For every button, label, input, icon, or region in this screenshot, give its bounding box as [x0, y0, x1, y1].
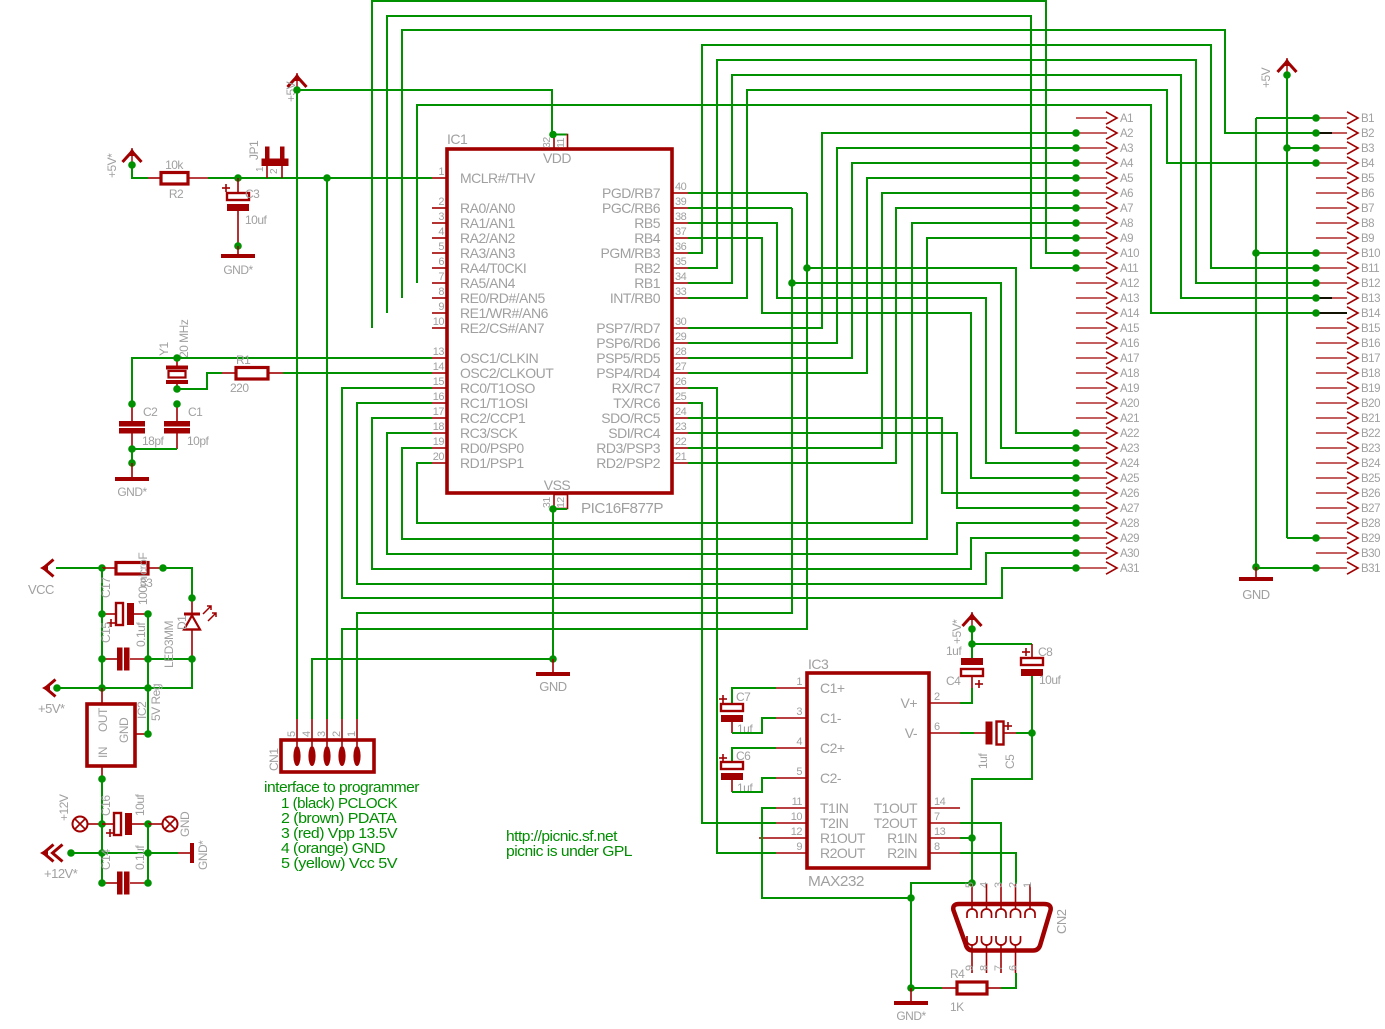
wire net pin27 PSP4 to A5 — [688, 178, 1076, 373]
svg-text:picnic is under GPL: picnic is under GPL — [506, 843, 632, 860]
pin A18 (connector A) — [1076, 367, 1139, 380]
junction A6 — [1072, 189, 1080, 197]
pin 16 RC1/T1OSI (IC1 left) — [432, 391, 528, 411]
svg-text:SDI/RC4: SDI/RC4 — [608, 425, 660, 441]
power symbol +12V* — [40, 845, 78, 882]
pin B29 (connector B) — [1316, 532, 1380, 545]
svg-text:R1: R1 — [236, 353, 251, 367]
pin 13 R1IN (IC3 right) — [887, 826, 960, 846]
svg-text:B21: B21 — [1361, 413, 1380, 425]
wire C7 bottom to C1- — [732, 718, 776, 733]
power symbol GND (crossed circle) — [148, 817, 178, 832]
junction D1 bottom — [188, 655, 196, 663]
wire D1 to +5V* rail — [57, 659, 192, 688]
junction C17 right — [144, 610, 152, 618]
svg-text:T1IN: T1IN — [820, 800, 848, 816]
svg-text:C1: C1 — [188, 405, 203, 419]
pin A3 (connector A) — [1076, 142, 1133, 155]
junction B4 — [1312, 159, 1320, 167]
svg-text:34: 34 — [675, 271, 687, 283]
pin A16 (connector A) — [1076, 337, 1139, 350]
wire C6 bottom to C2- — [732, 778, 776, 792]
svg-text:+5V*: +5V* — [105, 153, 119, 178]
svg-text:B16: B16 — [1361, 338, 1380, 350]
wire net pin23 SDI to A27 — [688, 433, 1076, 508]
svg-text:RD1/PSP1: RD1/PSP1 — [460, 455, 524, 471]
svg-text:27: 27 — [675, 361, 687, 373]
pin 5 RA3/AN3 (IC1 left) — [432, 241, 516, 261]
svg-text:10pf: 10pf — [187, 434, 210, 448]
svg-text:C8: C8 — [1038, 645, 1053, 659]
pin 3 C1- (IC3 left) — [776, 706, 842, 726]
svg-text:B14: B14 — [1361, 308, 1381, 320]
capacitor C16 (10uf polarized) — [102, 813, 148, 837]
svg-text:GND*: GND* — [196, 840, 210, 870]
pin 24 SDO/RC5 (IC1 right) — [601, 406, 688, 426]
wire R4 to CN2 pin6 — [1001, 973, 1016, 988]
svg-text:A22: A22 — [1120, 428, 1139, 440]
wire net pin22 RD3 to A6 — [688, 193, 1076, 448]
svg-text:B12: B12 — [1361, 278, 1380, 290]
junction B31 — [1312, 564, 1320, 572]
voltage regulator IC2 (5V Reg) — [87, 688, 148, 779]
svg-text:IC3: IC3 — [808, 656, 829, 672]
capacitor C3 (10uf polarized) — [222, 178, 249, 246]
pin 18 RC3/SCK (IC1 left) — [432, 421, 518, 441]
svg-text:VCC: VCC — [28, 582, 54, 597]
wire +5V* to R2 — [132, 164, 148, 178]
svg-text:5: 5 — [438, 241, 444, 253]
svg-text:1uf: 1uf — [946, 644, 962, 658]
svg-text:A8: A8 — [1120, 218, 1133, 230]
svg-text:20: 20 — [433, 451, 445, 463]
junction VSS — [549, 505, 557, 513]
svg-text:B6: B6 — [1361, 188, 1374, 200]
pin A10 (connector A) — [1076, 247, 1139, 260]
svg-text:A6: A6 — [1120, 188, 1133, 200]
svg-text:A15: A15 — [1120, 323, 1139, 335]
svg-text:GND: GND — [539, 679, 567, 694]
resistor R2 — [148, 173, 208, 185]
junction Y1 top — [173, 354, 181, 362]
wire net pin15 RC0 to A31 — [342, 388, 1076, 598]
junction C2 top — [128, 400, 136, 408]
wire C1/C2 ground link — [132, 449, 177, 463]
pin A21 (connector A) — [1076, 412, 1139, 425]
svg-text:18pf: 18pf — [142, 434, 165, 448]
wire net PGC branch to A23 — [792, 283, 1076, 448]
svg-text:PSP4/RD4: PSP4/RD4 — [596, 365, 660, 381]
svg-text:1: 1 — [438, 166, 444, 178]
svg-text:5 (yellow) Vcc 5V: 5 (yellow) Vcc 5V — [281, 855, 398, 872]
wire net pin18 RC3 to A28 — [387, 433, 1076, 554]
capacitor C1 (10pf) — [164, 404, 190, 449]
wire +5V down to CN1 pin 5 — [296, 90, 298, 719]
wire net pin26 RX to R2OUT — [688, 388, 776, 853]
pin 2 (CN2 top) — [1008, 882, 1021, 918]
junction +5V* C4 node — [968, 625, 976, 633]
junction Y1 bottom — [173, 385, 181, 393]
svg-text:5: 5 — [964, 882, 976, 888]
pin B10 (connector B) — [1316, 247, 1380, 260]
wire net pin17 RC2 to A29 — [372, 418, 1076, 569]
pin A29 (connector A) — [1076, 532, 1139, 545]
svg-text:R2IN: R2IN — [887, 845, 917, 861]
svg-text:SDO/RC5: SDO/RC5 — [601, 410, 660, 426]
svg-text:RD2/PSP2: RD2/PSP2 — [596, 455, 660, 471]
wire CN1 pin2 to PGD net — [342, 193, 807, 719]
wire net pin37 RB4 to A25 — [688, 238, 1076, 478]
wire R3 to LED branch — [163, 568, 192, 598]
ground GND* below C3 — [221, 246, 255, 277]
pin 1 MCLR#/THV (IC1 left) — [432, 166, 536, 186]
svg-text:RA0/AN0: RA0/AN0 — [460, 200, 516, 216]
power symbol +5V* (regulator output) — [38, 680, 65, 717]
pin A5 (connector A) — [1076, 172, 1133, 185]
pin 28 PSP5/RD5 (IC1 right) — [596, 346, 688, 366]
junction A24 — [1072, 459, 1080, 467]
svg-text:C6: C6 — [736, 749, 751, 763]
pin B18 (connector B) — [1316, 367, 1380, 380]
wire IC2 IN rail down — [101, 779, 103, 883]
pin A15 (connector A) — [1076, 322, 1139, 335]
wire C17/C15 right rail — [147, 614, 149, 734]
svg-text:PGM/RB3: PGM/RB3 — [600, 245, 660, 261]
svg-text:21: 21 — [675, 451, 687, 463]
svg-text:12: 12 — [555, 497, 567, 508]
svg-text:8: 8 — [438, 286, 444, 298]
svg-text:220: 220 — [230, 381, 249, 395]
jumper JP1 — [262, 147, 289, 179]
pin B17 (connector B) — [1316, 352, 1380, 365]
junction A9 — [1072, 234, 1080, 242]
svg-text:A23: A23 — [1120, 443, 1139, 455]
svg-text:30: 30 — [675, 316, 687, 328]
svg-text:A7: A7 — [1120, 203, 1133, 215]
capacitor C7 (1uf polarized) — [719, 688, 776, 733]
junction R3 right — [159, 564, 167, 572]
svg-text:5V Reg: 5V Reg — [149, 684, 163, 721]
svg-text:RE0/RD#/AN5: RE0/RD#/AN5 — [460, 290, 545, 306]
svg-text:CN2: CN2 — [1054, 909, 1069, 934]
svg-text:T1OUT: T1OUT — [874, 800, 918, 816]
wire OSC2 net R1 to IC1 pin14 — [283, 372, 432, 374]
junction C16 right — [144, 820, 152, 828]
pin B25 (connector B) — [1316, 472, 1380, 485]
wire net pin40 PGD/RB7 to A22 — [688, 192, 807, 194]
svg-text:14: 14 — [934, 796, 946, 808]
wire net pin7 RA5 to B14 — [417, 105, 1316, 313]
pin 4 RA2/AN2 (IC1 left) — [432, 226, 516, 246]
ground GND* (below R4 node) — [894, 988, 928, 1023]
junction B10 — [1312, 249, 1320, 257]
junction B3 — [1312, 144, 1320, 152]
wire GND to R4 — [911, 898, 942, 988]
svg-text:interface to programmer: interface to programmer — [264, 779, 420, 796]
pin 35 RB2 (IC1 right) — [634, 256, 688, 276]
junction B1 — [1312, 114, 1320, 122]
pin A6 (connector A) — [1076, 187, 1133, 200]
junction B3 rail — [1283, 144, 1291, 152]
svg-text:A20: A20 — [1120, 398, 1139, 410]
pin 21 RD2/PSP2 (IC1 right) — [596, 451, 688, 471]
pin 6 (CN2 bottom) — [1008, 936, 1021, 973]
svg-text:32: 32 — [541, 137, 553, 148]
svg-text:RE1/WR#/AN6: RE1/WR#/AN6 — [460, 305, 549, 321]
junction B11 — [1312, 264, 1320, 272]
junction +12V* arrow — [67, 849, 75, 857]
svg-text:C14: C14 — [99, 849, 113, 870]
svg-text:INT/RB0: INT/RB0 — [610, 290, 661, 306]
power symbol +5V* (at C4) — [950, 612, 982, 644]
svg-text:IC1: IC1 — [447, 131, 468, 147]
junction A23 — [1072, 444, 1080, 452]
svg-text:GND*: GND* — [223, 263, 253, 277]
junction A27 — [1072, 504, 1080, 512]
pin B9 (connector B) — [1316, 232, 1374, 245]
svg-text:VDD: VDD — [543, 150, 571, 166]
svg-text:35: 35 — [675, 256, 687, 268]
svg-text:B15: B15 — [1361, 323, 1380, 335]
junction IC2 IN — [98, 775, 106, 783]
junction A10 — [1072, 249, 1080, 257]
wire T1IN to GND loop — [762, 808, 911, 898]
pin A4 (connector A) — [1076, 157, 1134, 170]
junction B10 rail — [1252, 249, 1260, 257]
svg-text:A3: A3 — [1120, 143, 1133, 155]
power symbol +5V (above IC1) — [284, 73, 307, 102]
op-amp IC3 body (MAX232) — [807, 673, 929, 868]
pin 10 T2IN (IC3 left) — [776, 811, 848, 831]
svg-text:D1: D1 — [175, 615, 189, 630]
svg-text:C17: C17 — [99, 577, 113, 598]
wire net pin35 RB2 to B12 — [688, 60, 1316, 283]
junction GND node — [549, 655, 557, 663]
svg-text:10: 10 — [433, 316, 445, 328]
svg-text:A31: A31 — [1120, 563, 1139, 575]
pin B14 (connector B) — [1316, 307, 1381, 320]
pin 38 RB5 (IC1 right) — [634, 211, 688, 231]
junction R1IN tap — [968, 834, 976, 842]
pin B1 (connector B) — [1316, 112, 1374, 125]
junction B2 — [1312, 129, 1320, 137]
pin B26 (connector B) — [1316, 487, 1380, 500]
pin B7 (connector B) — [1316, 202, 1374, 215]
pin A26 (connector A) — [1076, 487, 1139, 500]
pin B3 (connector B) — [1316, 142, 1374, 155]
wire net pin30 PSP7 to A2 — [688, 133, 1076, 328]
junction C3 bottom — [234, 242, 242, 250]
pin 40 PGD/RB7 (IC1 right) — [602, 181, 688, 201]
pin 10 RE2/CS#/AN7 (IC1 left) — [432, 316, 545, 336]
wire net pin29 PSP6 to A3 — [688, 148, 1076, 343]
pin 19 RD0/PSP0 (IC1 left) — [432, 436, 524, 456]
power symbol +5V (B column) — [1259, 58, 1297, 88]
power symbol +5V* (top left) — [105, 148, 142, 178]
pin 37 RB4 (IC1 right) — [634, 226, 688, 246]
svg-text:B20: B20 — [1361, 398, 1380, 410]
svg-text:B31: B31 — [1361, 563, 1380, 575]
svg-text:0.1uf: 0.1uf — [133, 845, 147, 870]
svg-text:2: 2 — [934, 691, 940, 703]
svg-text:12: 12 — [791, 826, 803, 838]
junction C16 left — [98, 820, 106, 828]
svg-text:20 MHz: 20 MHz — [177, 319, 191, 358]
svg-text:22: 22 — [675, 436, 687, 448]
wire V- net to CN2 pin5 — [972, 676, 1032, 884]
pin 8 (CN2 bottom) — [979, 936, 992, 973]
svg-text:R1OUT: R1OUT — [820, 830, 866, 846]
pin B21 (connector B) — [1316, 412, 1380, 425]
pin A14 (connector A) — [1076, 307, 1140, 320]
svg-text:B13: B13 — [1361, 293, 1380, 305]
svg-text:RE2/CS#/AN7: RE2/CS#/AN7 — [460, 320, 545, 336]
pin B30 (connector B) — [1316, 547, 1380, 560]
svg-text:MAX232: MAX232 — [808, 873, 864, 890]
pin B6 (connector B) — [1316, 187, 1374, 200]
svg-text:RB1: RB1 — [634, 275, 660, 291]
pin 6 RA4/T0CKI (IC1 left) — [432, 256, 526, 276]
svg-text:CN1: CN1 — [267, 748, 281, 771]
ground GND (below IC1) — [536, 659, 570, 694]
svg-text:A11: A11 — [1120, 263, 1138, 275]
junction A22 — [1072, 429, 1080, 437]
svg-text:11: 11 — [555, 137, 567, 148]
pin 30 PSP7/RD7 (IC1 right) — [596, 316, 688, 336]
svg-text:+12V: +12V — [57, 794, 71, 821]
svg-text:10uf: 10uf — [245, 213, 268, 227]
svg-text:29: 29 — [675, 331, 687, 343]
pin B31 (connector B) — [1316, 562, 1380, 575]
svg-text:RD3/PSP3: RD3/PSP3 — [596, 440, 660, 456]
wire net pin10 RE2 to A10 — [372, 1, 1076, 328]
junction +5V arrow — [293, 86, 301, 94]
svg-text:A13: A13 — [1120, 293, 1139, 305]
svg-text:B4: B4 — [1361, 158, 1375, 170]
svg-text:3: 3 — [438, 211, 444, 223]
junction A11 — [1072, 264, 1080, 272]
pin 13 OSC1/CLKIN (IC1 left) — [432, 346, 538, 366]
pin 9 (CN2 bottom) — [964, 936, 977, 973]
power symbol VCC — [28, 560, 54, 598]
svg-text:OSC1/CLKIN: OSC1/CLKIN — [460, 350, 538, 366]
svg-text:B10: B10 — [1361, 248, 1380, 260]
junction C1 top — [173, 400, 181, 408]
svg-text:4: 4 — [796, 736, 802, 748]
svg-text:3: 3 — [316, 731, 328, 737]
junction A4 — [1072, 159, 1080, 167]
wire +5V rail B3-B29 — [1287, 75, 1316, 538]
junction A26 — [1072, 489, 1080, 497]
junction A28 — [1072, 519, 1080, 527]
junction A31 — [1072, 564, 1080, 572]
svg-text:A17: A17 — [1120, 353, 1139, 365]
svg-text:RD0/PSP0: RD0/PSP0 — [460, 440, 524, 456]
pin 5 (CN2 top) — [964, 882, 977, 918]
svg-text:B26: B26 — [1361, 488, 1380, 500]
pin 17 RC2/CCP1 (IC1 left) — [432, 406, 526, 426]
wire R1IN to V- riser — [960, 837, 972, 839]
svg-text:C15: C15 — [99, 622, 113, 643]
svg-text:18: 18 — [433, 421, 445, 433]
pin A2 (connector A) — [1076, 127, 1133, 140]
wire C16/C14 right rail — [147, 824, 149, 883]
junction GND R4 node — [907, 894, 915, 902]
svg-text:B23: B23 — [1361, 443, 1380, 455]
svg-text:10: 10 — [791, 811, 803, 823]
junction IC2 OUT — [98, 684, 106, 692]
pin 14 OSC2/CLKOUT (IC1 left) — [432, 361, 554, 381]
svg-text:B7: B7 — [1361, 203, 1374, 215]
junction C2 bottom — [128, 445, 136, 453]
svg-text:RC1/T1OSI: RC1/T1OSI — [460, 395, 528, 411]
junction A8 — [1072, 219, 1080, 227]
junction B12 — [1312, 279, 1320, 287]
svg-text:R4: R4 — [950, 967, 965, 981]
svg-text:PSP5/RD5: PSP5/RD5 — [596, 350, 660, 366]
svg-text:MCLR#/THV: MCLR#/THV — [460, 170, 536, 186]
svg-text:RA3/AN3: RA3/AN3 — [460, 245, 516, 261]
svg-text:PGD/RB7: PGD/RB7 — [602, 185, 661, 201]
wire +5V rail to VDD — [297, 90, 552, 134]
capacitor C15 (0.1uf) — [102, 648, 148, 671]
pin 3 RA1/AN1 (IC1 left) — [432, 211, 516, 231]
svg-text:A21: A21 — [1120, 413, 1139, 425]
pin A11 (connector A) — [1076, 262, 1138, 275]
wire R2IN to CN2 pin2 — [960, 853, 1016, 884]
svg-text:B24: B24 — [1361, 458, 1381, 470]
svg-text:A14: A14 — [1120, 308, 1140, 320]
pin B24 (connector B) — [1316, 457, 1381, 470]
pin B4 (connector B) — [1316, 157, 1375, 170]
wire CN1 pin4 to GND — [312, 659, 552, 719]
pin 27 PSP4/RD4 (IC1 right) — [596, 361, 688, 381]
svg-text:V+: V+ — [900, 695, 917, 711]
svg-text:33: 33 — [140, 576, 153, 590]
connector CN2 (DB9) — [953, 904, 1050, 951]
svg-text:B9: B9 — [1361, 233, 1374, 245]
pin A30 (connector A) — [1076, 547, 1139, 560]
wire V+ to C4 — [960, 688, 972, 703]
svg-text:R1IN: R1IN — [887, 830, 917, 846]
svg-text:B17: B17 — [1361, 353, 1380, 365]
resistor R3 (33) — [102, 563, 163, 575]
junction CN2 pin5 GND tap — [968, 879, 976, 887]
svg-text:V-: V- — [905, 725, 918, 741]
junction C14 right — [144, 879, 152, 887]
svg-text:A5: A5 — [1120, 173, 1133, 185]
pin 20 RD1/PSP1 (IC1 left) — [432, 451, 524, 471]
svg-text:7: 7 — [438, 271, 444, 283]
junction A29 — [1072, 534, 1080, 542]
pin B15 (connector B) — [1316, 322, 1380, 335]
pin 9 R2OUT (IC3 left) — [776, 841, 866, 861]
LED D1 (LED3MM) — [184, 598, 216, 659]
svg-text:VSS: VSS — [544, 477, 571, 493]
svg-text:RB4: RB4 — [634, 230, 660, 246]
svg-text:+5V*: +5V* — [38, 701, 65, 716]
svg-text:C2+: C2+ — [820, 740, 845, 756]
junction B13 — [1312, 294, 1320, 302]
svg-text:A26: A26 — [1120, 488, 1139, 500]
svg-text:28: 28 — [675, 346, 687, 358]
pin B23 (connector B) — [1316, 442, 1380, 455]
svg-text:10uf: 10uf — [133, 793, 147, 816]
pin A23 (connector A) — [1076, 442, 1139, 455]
pin B28 (connector B) — [1316, 517, 1380, 530]
junction PGC branch — [788, 279, 796, 287]
svg-text:2: 2 — [331, 731, 343, 737]
